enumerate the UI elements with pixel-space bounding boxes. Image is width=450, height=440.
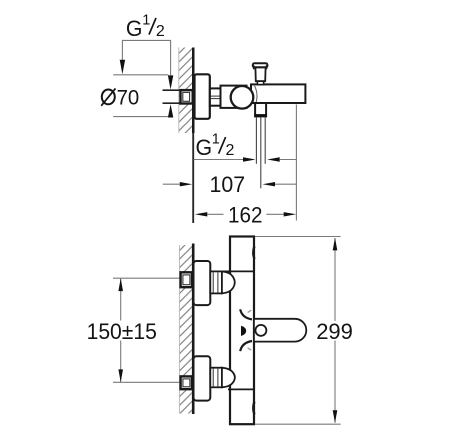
svg-text:2: 2 [156,23,165,40]
svg-text:1: 1 [142,12,150,28]
svg-text:299: 299 [316,319,353,344]
svg-text:150±15: 150±15 [87,318,157,344]
svg-text:70: 70 [117,86,140,109]
svg-text:G: G [126,16,143,41]
svg-text:162: 162 [228,203,263,228]
svg-text:107: 107 [210,171,246,196]
